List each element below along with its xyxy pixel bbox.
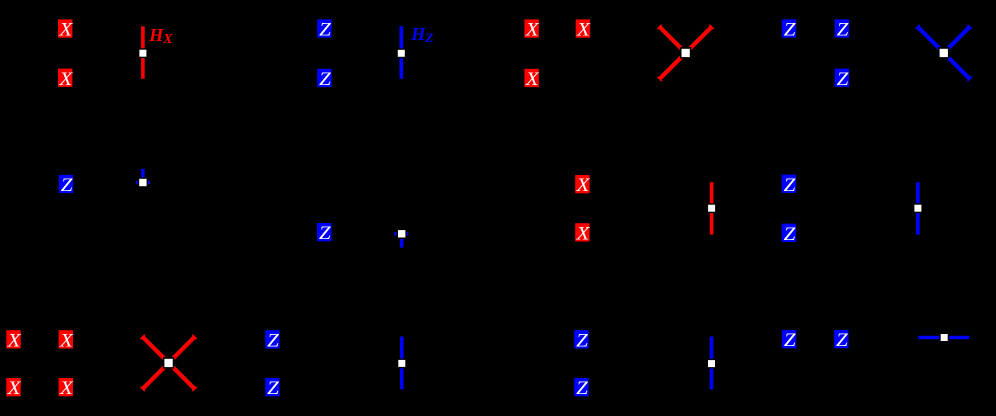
svg-text:X: X — [58, 20, 73, 41]
svg-text:Z: Z — [784, 175, 797, 196]
svg-text:Z: Z — [784, 330, 797, 351]
svg-text:Z: Z — [836, 330, 849, 351]
svg-text:Z: Z — [784, 20, 797, 41]
svg-text:Z: Z — [319, 223, 332, 244]
svg-text:Z: Z — [576, 378, 589, 399]
svg-text:X: X — [575, 224, 590, 245]
svg-text:Z: Z — [319, 20, 332, 41]
svg-text:Z: Z — [319, 69, 332, 90]
svg-text:Z: Z — [267, 378, 280, 399]
svg-text:X: X — [525, 20, 540, 41]
svg-text:X: X — [525, 69, 540, 90]
svg-text:X: X — [576, 20, 591, 41]
svg-text:X: X — [7, 378, 22, 399]
svg-text:X: X — [58, 69, 73, 90]
svg-text:Z: Z — [784, 224, 797, 245]
svg-text:Z: Z — [837, 69, 850, 90]
svg-text:HZ: HZ — [410, 24, 433, 45]
svg-text:X: X — [59, 378, 74, 399]
svg-text:X: X — [59, 331, 74, 352]
svg-text:Z: Z — [267, 331, 280, 352]
svg-text:Z: Z — [576, 331, 589, 352]
svg-text:Z: Z — [61, 175, 74, 196]
svg-text:Z: Z — [837, 20, 850, 41]
svg-text:X: X — [575, 175, 590, 196]
svg-text:HX: HX — [148, 25, 173, 47]
svg-text:X: X — [7, 331, 22, 352]
